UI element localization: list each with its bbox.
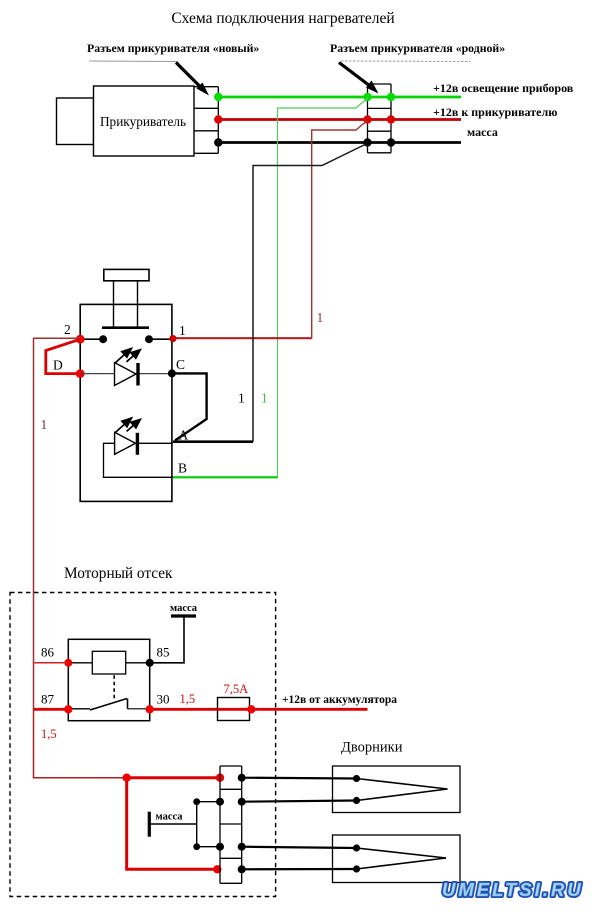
switch body box xyxy=(80,304,172,501)
wires to wiper motors xyxy=(242,777,357,780)
terminal C dot xyxy=(168,369,176,377)
svg-text:Схема подключения нагревателей: Схема подключения нагревателей xyxy=(171,10,394,27)
svg-text:2: 2 xyxy=(64,322,71,337)
svg-text:масса: масса xyxy=(170,603,198,614)
red loop wire 2->D xyxy=(46,339,80,373)
svg-text:87: 87 xyxy=(41,692,55,707)
wire: ground масса (black) xyxy=(218,141,461,144)
terminal 85 dot xyxy=(146,659,154,667)
wire 85 to ground xyxy=(150,617,184,663)
LED1 triangle xyxy=(115,363,137,386)
LED2 cathode wire to A xyxy=(137,442,173,444)
arrow to connector «родной» xyxy=(339,63,379,94)
LED2 arrows xyxy=(115,418,140,433)
svg-text:7,5А: 7,5А xyxy=(224,682,249,696)
LED2 anode U wire xyxy=(104,443,173,477)
terminal 87 dot xyxy=(64,705,72,713)
wiper motor 2 box xyxy=(333,835,461,883)
svg-text:D: D xyxy=(53,358,63,373)
svg-text:+12в к прикуривателю: +12в к прикуривателю xyxy=(433,105,557,119)
svg-text:1: 1 xyxy=(261,391,268,406)
wire: +12v lighter (red) xyxy=(218,118,461,121)
svg-text:86: 86 xyxy=(41,645,55,660)
terminal 86 dot xyxy=(64,659,72,667)
terminal 2 dot (red) xyxy=(76,335,85,344)
svg-text:Дворники: Дворники xyxy=(341,740,403,756)
button contact plate xyxy=(102,326,149,329)
LED1 arrows xyxy=(115,349,140,364)
junction dot red (feed branch) xyxy=(123,774,131,782)
watermark UMELTSI.RU xyxy=(442,879,584,900)
wiper connector pin dots xyxy=(238,774,246,782)
svg-text:Разъем прикуривателя «новый»: Разъем прикуривателя «новый» xyxy=(87,41,259,55)
wire 87-30 red row xyxy=(34,708,69,711)
contact wires row xyxy=(80,338,103,340)
bottom red feed wires xyxy=(34,709,127,777)
LED2 triangle xyxy=(115,432,136,454)
wire to battery xyxy=(251,708,367,711)
wire: green B segment (bright) xyxy=(173,476,278,478)
svg-text:1: 1 xyxy=(179,323,186,338)
svg-text:1,5: 1,5 xyxy=(180,692,196,706)
terminal 30 dot xyxy=(146,705,154,713)
coil wires xyxy=(68,662,92,664)
connector «новый» pin dots xyxy=(214,93,222,101)
relay coil xyxy=(92,651,125,674)
connector «новый» cells xyxy=(194,87,218,154)
terminal 1 dot (red) xyxy=(169,335,176,342)
wire 86 red from left vertical xyxy=(34,662,69,664)
relay box xyxy=(68,639,149,720)
wire C->A (thick) xyxy=(172,373,207,440)
button stem xyxy=(113,281,115,327)
svg-text:85: 85 xyxy=(157,645,170,660)
LED1 wire D->C xyxy=(80,373,172,375)
svg-text:Моторный отсек: Моторный отсек xyxy=(64,565,173,582)
svg-text:1: 1 xyxy=(41,417,48,432)
svg-text:+12в от аккумулятора: +12в от аккумулятора xyxy=(282,694,397,706)
fuse 7,5A xyxy=(218,698,250,721)
cigarette lighter rear cap xyxy=(57,98,94,145)
wire: +12v illumination (green) xyxy=(218,96,461,99)
svg-text:+12в освещение приборов: +12в освещение приборов xyxy=(433,81,574,95)
wire: thin green from родной pin to switch B xyxy=(183,98,368,477)
label: Разъем прикуривателя «родной» xyxy=(330,41,505,62)
relay actuator dashed xyxy=(113,675,115,700)
wire: left red from terminal 2 down to relay 87 xyxy=(34,338,81,710)
junction dot red (connector pin 1) xyxy=(216,774,224,782)
LED2 cathode bar xyxy=(136,433,139,455)
connector «родной» frame xyxy=(368,84,392,153)
svg-text:A: A xyxy=(179,428,189,443)
svg-text:масса: масса xyxy=(156,812,184,823)
wiper connector frame xyxy=(220,766,242,883)
fuse right dot xyxy=(247,705,255,713)
junction dot red (connector pin 4) xyxy=(213,865,221,873)
terminal D dot (red) xyxy=(76,369,85,378)
svg-text:Прикуриватель: Прикуриватель xyxy=(100,114,186,129)
label: Разъем прикуривателя «новый» xyxy=(87,41,259,62)
button cap xyxy=(104,269,149,280)
ground bar xyxy=(171,614,196,617)
svg-text:Разъем прикуривателя «родной»: Разъем прикуривателя «родной» xyxy=(330,41,505,55)
connector «родной» pin dots xyxy=(363,93,371,101)
relay switch arm xyxy=(68,708,90,710)
arrow to connector «новый» xyxy=(176,63,209,96)
LED1 cathode bar xyxy=(136,363,139,386)
wiper motor 1 box xyxy=(333,766,461,813)
wire A (thick) xyxy=(173,440,253,443)
wire: thin red from родной pin down to switch terminal 1 xyxy=(173,121,368,338)
cigarette lighter body: Прикуриватель xyxy=(94,86,195,156)
svg-text:C: C xyxy=(176,357,185,372)
dashed box Моторный отсек xyxy=(10,593,276,897)
svg-text:1: 1 xyxy=(238,391,245,406)
svg-text:UMELTSI.RU: UMELTSI.RU xyxy=(442,879,584,900)
svg-text:30: 30 xyxy=(157,692,170,707)
svg-text:1,5: 1,5 xyxy=(41,727,57,741)
wire: red terminal1 horizontal (thicker) xyxy=(173,337,312,339)
wire: thin black from родной ground pin down to A xyxy=(253,144,366,442)
ground bracket масса (wiper) xyxy=(148,812,151,837)
svg-text:B: B xyxy=(178,461,187,476)
svg-text:масса: масса xyxy=(467,125,498,139)
contact dots xyxy=(99,335,107,343)
svg-text:1: 1 xyxy=(317,310,324,325)
